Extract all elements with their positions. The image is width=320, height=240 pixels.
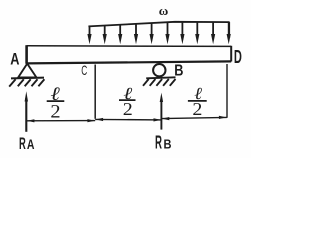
pin support at A (triangle) xyxy=(18,64,36,78)
reaction arrow RB xyxy=(160,93,163,130)
reaction arrow RA xyxy=(25,91,28,132)
load arrow 8 xyxy=(195,22,199,44)
support A hatching xyxy=(9,79,44,86)
load arrow 6 xyxy=(165,22,169,44)
svg-text:B: B xyxy=(174,63,183,80)
svg-text:C: C xyxy=(81,62,87,78)
load arrow 1 xyxy=(87,26,91,44)
dimension line A-C xyxy=(26,119,95,122)
svg-text:A: A xyxy=(10,49,19,68)
svg-text:D: D xyxy=(234,47,242,67)
load arrow 9 xyxy=(211,22,215,44)
beam right edge xyxy=(230,46,232,62)
extension line at C xyxy=(94,65,96,119)
svg-text:2: 2 xyxy=(50,101,60,122)
load arrow 4 xyxy=(134,24,138,44)
fraction l/2 (segment C-B) xyxy=(119,84,136,119)
support B hatching xyxy=(143,79,176,86)
fraction l/2 (segment A-C) xyxy=(47,84,65,123)
svg-text:B: B xyxy=(164,136,172,151)
svg-text:2: 2 xyxy=(192,99,202,119)
dimension line B-D xyxy=(161,116,226,120)
distributed load right edge xyxy=(228,22,230,38)
roller support at B (circle) xyxy=(153,64,165,76)
svg-text:R: R xyxy=(155,131,162,152)
svg-text:2: 2 xyxy=(123,99,133,119)
support A ground line xyxy=(11,77,44,80)
support B ground line xyxy=(146,77,175,78)
load arrow 3 xyxy=(118,25,122,45)
svg-text:ω: ω xyxy=(159,3,169,18)
load arrow 5 xyxy=(150,23,154,44)
extension line at right end D xyxy=(226,64,228,118)
beam bottom edge xyxy=(27,61,232,63)
fraction l/2 (segment B-D) xyxy=(188,84,207,119)
load arrow 7 xyxy=(180,22,184,44)
reaction label RA xyxy=(19,135,35,153)
dimension line C-B xyxy=(95,118,161,122)
svg-text:A: A xyxy=(27,137,35,152)
reaction label RB xyxy=(155,131,172,152)
beam top edge xyxy=(27,45,232,48)
distributed load top line xyxy=(88,22,229,27)
load arrow 10 xyxy=(227,22,231,44)
load arrow 2 xyxy=(103,26,107,45)
svg-text:R: R xyxy=(19,135,26,153)
beam left edge xyxy=(25,45,28,64)
